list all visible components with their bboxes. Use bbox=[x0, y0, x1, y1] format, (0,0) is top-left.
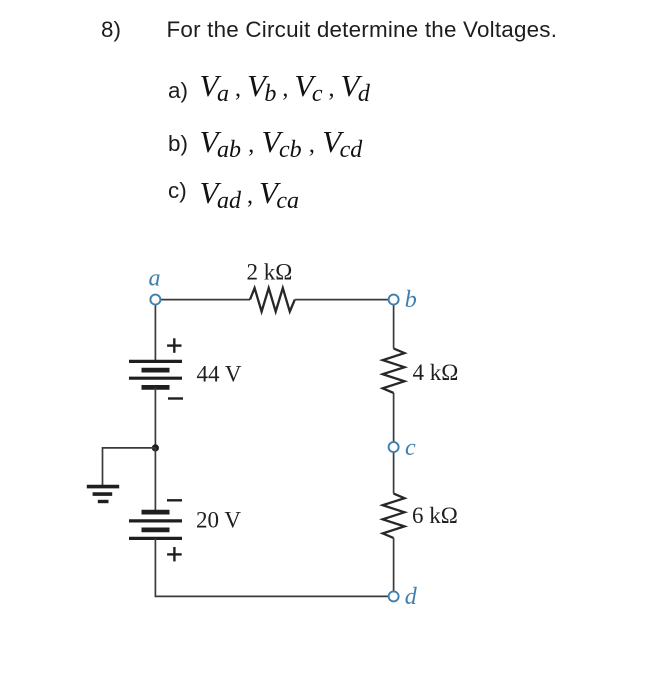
wire: battery V2 to bottom-left corner and bottom wire to node d bbox=[155, 538, 388, 596]
battery V2 20V bbox=[129, 512, 182, 538]
problem number 8) bbox=[101, 19, 121, 41]
item a math: Va , Vb , Vc , Vd bbox=[200, 70, 370, 110]
resistor R2 4k ohm (right upper) bbox=[383, 349, 405, 393]
ground bbox=[87, 487, 119, 502]
wire: node a to 2k resistor (top left) bbox=[160, 299, 250, 301]
plus sign of V2 bbox=[167, 547, 182, 561]
resistor R3 6k ohm (right lower) bbox=[383, 494, 405, 538]
minus sign of V2 bbox=[167, 499, 182, 501]
svg-text:b: b bbox=[405, 287, 417, 313]
svg-text:6 kΩ: 6 kΩ bbox=[412, 503, 458, 528]
svg-text:4 kΩ: 4 kΩ bbox=[413, 360, 459, 385]
node d bbox=[389, 591, 399, 601]
wire: node a down to battery V1 bbox=[154, 304, 156, 361]
wire: battery V1 to junction bbox=[154, 387, 156, 448]
svg-text:20 V: 20 V bbox=[196, 508, 241, 533]
minus sign of V1 bbox=[168, 397, 183, 399]
resistor R1 2k ohm (top) bbox=[250, 288, 295, 312]
wire: junction down to battery V2 bbox=[154, 448, 156, 512]
node b bbox=[389, 295, 399, 305]
plus sign of V1 bbox=[167, 338, 181, 353]
item c math: Vad , Vca bbox=[200, 177, 300, 217]
item b) label bbox=[168, 133, 188, 155]
item c) label bbox=[168, 180, 187, 202]
svg-text:d: d bbox=[405, 584, 418, 610]
wire: 6k resistor to node d bbox=[393, 538, 395, 592]
svg-text:2 kΩ: 2 kΩ bbox=[247, 259, 293, 284]
item b math: Vab , Vcb , Vcd bbox=[200, 126, 363, 166]
title text bbox=[167, 19, 558, 41]
wire: 4k resistor to node c bbox=[393, 393, 395, 442]
svg-text:a: a bbox=[149, 266, 161, 292]
wire: 2k resistor to node b (top right) bbox=[295, 299, 389, 301]
wire: junction to ground branch bbox=[103, 448, 156, 485]
svg-text:44 V: 44 V bbox=[197, 362, 242, 387]
wire: node c to 6k resistor bbox=[393, 452, 395, 494]
battery V1 44V bbox=[129, 361, 182, 387]
item a) label bbox=[168, 80, 188, 102]
junction node bbox=[152, 444, 159, 451]
svg-text:c: c bbox=[405, 435, 416, 461]
wire: node b down to 4k resistor bbox=[393, 304, 395, 348]
node c bbox=[389, 442, 399, 452]
node a bbox=[150, 295, 160, 305]
